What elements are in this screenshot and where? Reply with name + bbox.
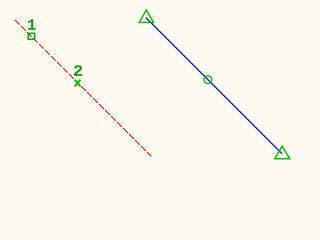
wire: blue line	[146, 18, 282, 154]
node 1 square point marker	[28, 33, 34, 39]
node 2 label	[74, 65, 82, 76]
node A: start-point triangle marker	[139, 10, 153, 23]
wire: red dashed construction line through points 1 and 2	[15, 20, 152, 157]
node 1 label	[28, 19, 36, 29]
node 2 X point marker	[75, 80, 81, 87]
node C: end-point triangle marker	[275, 146, 290, 159]
node B: mid-point circle marker	[204, 76, 212, 84]
